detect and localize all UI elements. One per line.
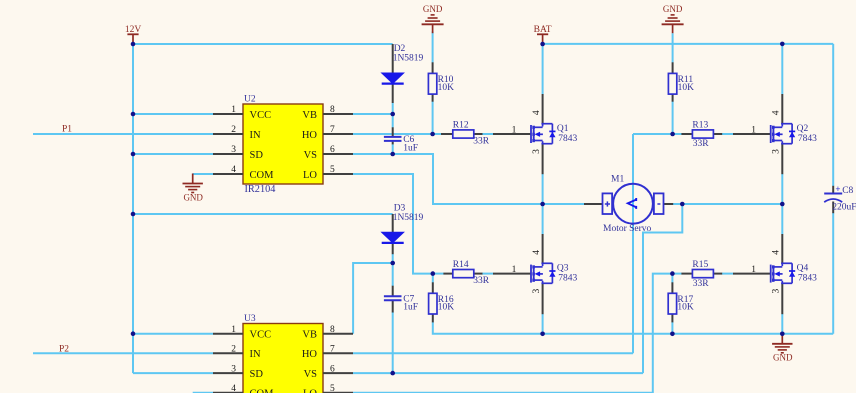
pin Q2 source [781,144,783,175]
svg-text:8: 8 [330,325,335,335]
wire node to C7 top [392,263,394,286]
wire GND to R10 top [432,31,434,62]
svg-text:1uF: 1uF [403,143,418,153]
wire U2 LO to R14 node [353,174,433,274]
wire U2 HO to R12 node [353,133,441,135]
svg-text:2: 2 [231,125,236,135]
svg-text:VS: VS [304,150,318,161]
svg-text:1N5819: 1N5819 [393,54,424,64]
pin Q1 gate [493,133,531,135]
resistor R16 10K [429,293,455,314]
svg-text:3: 3 [231,364,236,374]
svg-text:10K: 10K [438,303,455,313]
wire U3 HO row [353,352,633,354]
wire 12V vertical bus [132,44,134,373]
pin R13 right [713,133,722,135]
svg-text:GND: GND [663,4,683,14]
wire R13 node left [633,133,673,135]
pin R16 bottom [432,314,434,322]
pin Q4 gate [733,273,771,275]
wire node B down to U3 VS row [643,204,682,373]
pin R11 bottom [672,94,674,102]
svg-text:P2: P2 [59,345,69,355]
svg-text:HO: HO [302,130,318,141]
svg-text:Motor Servo: Motor Servo [603,224,652,234]
wire net P2 to U3 IN [33,352,213,354]
wire 12V rail to D2 [133,43,393,45]
junction bus/SD [131,152,136,157]
svg-text:R15: R15 [692,260,708,270]
wire D3 cathode to node [392,254,394,263]
pin R16 top [432,282,434,293]
wire node to Q4 drain [781,204,783,234]
svg-text:6: 6 [330,145,335,155]
wire R10 bottom to R12 node [432,102,434,135]
ground GND above R11 [662,4,684,33]
svg-text:3: 3 [772,288,782,293]
junction R10/R12 [430,132,435,137]
junction bus/VCC [131,112,136,117]
power port 12V [125,25,142,44]
wire node to C6 top [392,114,394,128]
svg-text:4: 4 [772,110,782,115]
pin R14 left [443,273,452,275]
svg-text:Q2: Q2 [797,124,809,134]
wire D2 cathode to node [392,103,394,114]
junction R15/R17 [670,271,675,276]
svg-text:R13: R13 [692,120,708,130]
pin C8 top [832,186,834,194]
pin Q3 gate [493,273,531,275]
wire U3 VB to D3/C7 node [353,263,393,334]
svg-text:IR2104: IR2104 [245,184,276,195]
junction D2/C6/VB [390,112,395,117]
pin Q4 source [781,283,783,314]
transistor Q3 7843 [512,250,578,294]
pin M1 positive [584,203,603,205]
svg-text:VCC: VCC [250,330,272,341]
svg-text:C8: C8 [842,186,853,196]
wire U2 VS to switch node A [353,154,543,204]
wire BAT to Q1 drain [542,44,544,94]
pin C6 bottom [392,142,394,145]
svg-text:1uF: 1uF [403,303,418,313]
svg-text:Q3: Q3 [557,263,569,273]
wire BAT rail to C8 [543,43,834,45]
pin R12 right [474,133,483,135]
wire 12V bus to D3 [133,213,393,215]
wire node to R14 [433,273,444,275]
wire switch node A to motor + [543,203,584,205]
junction bus/D3 rail [131,212,136,217]
wire node down to R16 [432,274,434,283]
svg-text:GND: GND [773,353,793,363]
svg-text:1: 1 [512,125,517,135]
junction BAT [540,42,545,47]
svg-text:8: 8 [330,105,335,115]
pin R14 right [474,273,483,275]
resistor R12 33R [453,120,490,146]
wire bus to U2 SD [133,153,213,155]
pin Q4 drain [781,234,783,264]
svg-text:D2: D2 [394,44,406,54]
svg-text:7843: 7843 [798,274,817,284]
wire U3 LO to R15 node [353,274,672,393]
svg-text:IN: IN [250,349,261,360]
wire R13 to Q2 gate [722,133,733,135]
pin R15 right [713,273,722,275]
wire U3 COM to GND [193,392,213,393]
wire bus to U2 VCC [133,113,213,115]
wire node B to Q2 source [682,203,782,205]
wire R15 to Q4 gate [722,273,733,275]
wire R17 bottom to rail [671,322,673,334]
transistor Q4 7843 [751,250,817,294]
svg-text:1: 1 [751,265,756,275]
svg-text:M1: M1 [611,174,624,184]
wire node to R15 [672,273,681,275]
pin C7 top [392,286,394,296]
svg-text:LO: LO [303,170,317,181]
svg-text:1: 1 [751,125,756,135]
svg-text:33R: 33R [473,136,490,146]
motor M1 Motor Servo [603,174,664,234]
svg-text:HO: HO [302,349,318,360]
resistor R15 33R [692,260,713,289]
pin R17 bottom [671,314,673,322]
wire BAT rail to Q2 drain [781,44,783,94]
svg-text:10K: 10K [677,303,694,313]
junction Q2 source/Q4 drain [780,202,785,207]
svg-text:7: 7 [330,125,335,135]
svg-text:1N5819: 1N5819 [393,213,424,223]
svg-text:5: 5 [330,384,335,393]
pin D3 cathode [392,244,394,255]
junction C7/U3 VS [390,371,395,376]
svg-text:4: 4 [532,250,542,255]
capacitor C8 220uF [824,184,856,213]
wire bus to U3 VCC [133,333,213,335]
pin R10 bottom [432,94,434,102]
svg-text:3: 3 [532,149,542,154]
junction R14/R16 [431,271,436,276]
pin R17 top [671,282,673,293]
svg-text:GND: GND [183,192,203,202]
wire switch node A to Q3 drain [542,204,544,234]
resistor R17 10K [668,293,694,314]
wire R11 bottom to R13 node [672,102,674,135]
junction 12V rail [131,42,136,47]
svg-text:7843: 7843 [798,134,817,144]
svg-text:1: 1 [512,265,517,275]
wire bus to U3 SD [133,372,213,374]
pin D3 anode [392,214,394,233]
pin Q3 source [542,283,544,314]
svg-text:33R: 33R [693,139,710,149]
svg-text:4: 4 [231,384,236,393]
pin C7 bottom [392,301,394,313]
wire Q3 source to bottom rail [542,314,544,334]
wire node to R12 [433,133,442,135]
wire R14 to Q3 gate [482,273,493,275]
junction switch node A [540,202,545,207]
diode D3 1N5819 [382,203,424,243]
svg-text:Q1: Q1 [557,124,569,134]
diode D2 1N5819 [382,44,424,84]
junction Q4 source/GND [780,332,785,337]
svg-text:VB: VB [302,330,317,341]
svg-text:Q4: Q4 [797,263,809,273]
wire bottom source rail [433,322,833,334]
wire rail down to C8 top [832,44,834,186]
svg-text:IN: IN [250,130,261,141]
svg-text:VCC: VCC [250,110,272,121]
junction D3/C7/U3 VB [390,261,395,266]
svg-text:7843: 7843 [558,274,577,284]
ground GND at bottom rail [772,334,793,363]
wire C6 bottom to node [392,144,394,154]
svg-text:2: 2 [231,345,236,355]
svg-text:COM: COM [250,170,275,181]
junction BAT rail/Q2 drain [780,42,785,47]
resistor R14 33R [453,260,490,286]
pin D2 anode [392,44,394,74]
svg-text:GND: GND [423,4,443,14]
svg-text:7: 7 [330,345,335,355]
pin R11 top [672,62,674,73]
transistor Q2 7843 [751,110,817,154]
svg-text:SD: SD [250,150,264,161]
svg-text:7843: 7843 [558,134,577,144]
pin C6 top [392,127,394,136]
svg-text:U2: U2 [244,95,256,105]
wire C8 bottom to bottom rail [832,213,834,334]
power port BAT [534,25,552,44]
svg-text:VS: VS [304,369,318,380]
capacitor C7 1uF [384,295,418,313]
wire U3 VS row [353,372,643,374]
svg-text:4: 4 [772,250,782,255]
wire node down to R17 [671,274,673,283]
transistor Q1 7843 [512,110,578,154]
pin R15 left [681,273,692,275]
pin D2 cathode [392,84,394,104]
svg-text:D3: D3 [394,203,406,213]
svg-text:33R: 33R [693,279,710,289]
wire Q4 source to bottom rail [781,314,783,334]
svg-text:3: 3 [231,145,236,155]
svg-text:4: 4 [532,110,542,115]
junction R11/R13 [670,132,675,137]
resistor R13 33R [692,120,713,149]
svg-text:3: 3 [532,288,542,293]
capacitor C6 1uF [384,135,418,153]
svg-text:1: 1 [231,325,236,335]
op-amp U3 IR2104 gate driver [213,314,353,393]
wire motor - to node B [673,203,682,205]
resistor R10 10K [428,73,454,94]
wire R12 to Q1 gate [482,133,493,135]
svg-text:P1: P1 [62,125,72,135]
wire U2 COM to GND [193,173,213,175]
svg-text:R14: R14 [453,260,469,270]
op-amp U2 IR2104 gate driver [213,95,353,195]
svg-text:10K: 10K [678,83,695,93]
pin Q1 source [542,144,544,175]
pin R10 top [432,62,434,73]
svg-text:10K: 10K [438,83,455,93]
wire net P1 to U2 IN [33,133,213,135]
svg-text:4: 4 [231,165,236,175]
pin Q1 drain [542,94,544,124]
wire Q1 source to switch node A [542,174,544,204]
pin Q3 drain [542,234,544,264]
pin R13 left [681,133,692,135]
wire GND to R11 top [672,33,674,62]
svg-text:+: + [835,184,840,194]
wire U2 VB to D2/C6 node [353,113,393,115]
pin Q2 drain [781,94,783,124]
wire Q2 gate column to U3 HO row [632,134,634,353]
svg-text:3: 3 [772,149,782,154]
pin R12 left [441,133,453,135]
svg-text:U3: U3 [244,314,256,324]
resistor R11 10K [668,73,694,94]
ground GND above R10 [422,4,444,33]
pin Q2 gate [733,133,771,135]
junction motor negative node B [680,202,685,207]
svg-text:6: 6 [330,364,335,374]
pin M1 negative [663,203,673,205]
svg-text:33R: 33R [473,276,490,286]
ground GND at U2 COM [183,174,204,203]
wire C7 bottom to U3 VS row [392,312,394,373]
svg-text:VB: VB [302,110,317,121]
wire node to R13 [673,133,682,135]
wire Q2 source to node [781,174,783,204]
svg-text:LO: LO [303,389,317,393]
junction R17/bottom rail [670,332,675,337]
svg-text:5: 5 [330,165,335,175]
pin C8 bottom [832,202,834,214]
svg-text:R12: R12 [453,120,469,130]
svg-text:SD: SD [250,369,264,380]
junction bus/U3 VCC [131,331,136,336]
junction C6/VS [390,152,395,157]
svg-text:1: 1 [231,105,236,115]
svg-text:COM: COM [250,389,275,393]
svg-text:220uF: 220uF [832,203,856,213]
junction Q3 source [540,332,545,337]
